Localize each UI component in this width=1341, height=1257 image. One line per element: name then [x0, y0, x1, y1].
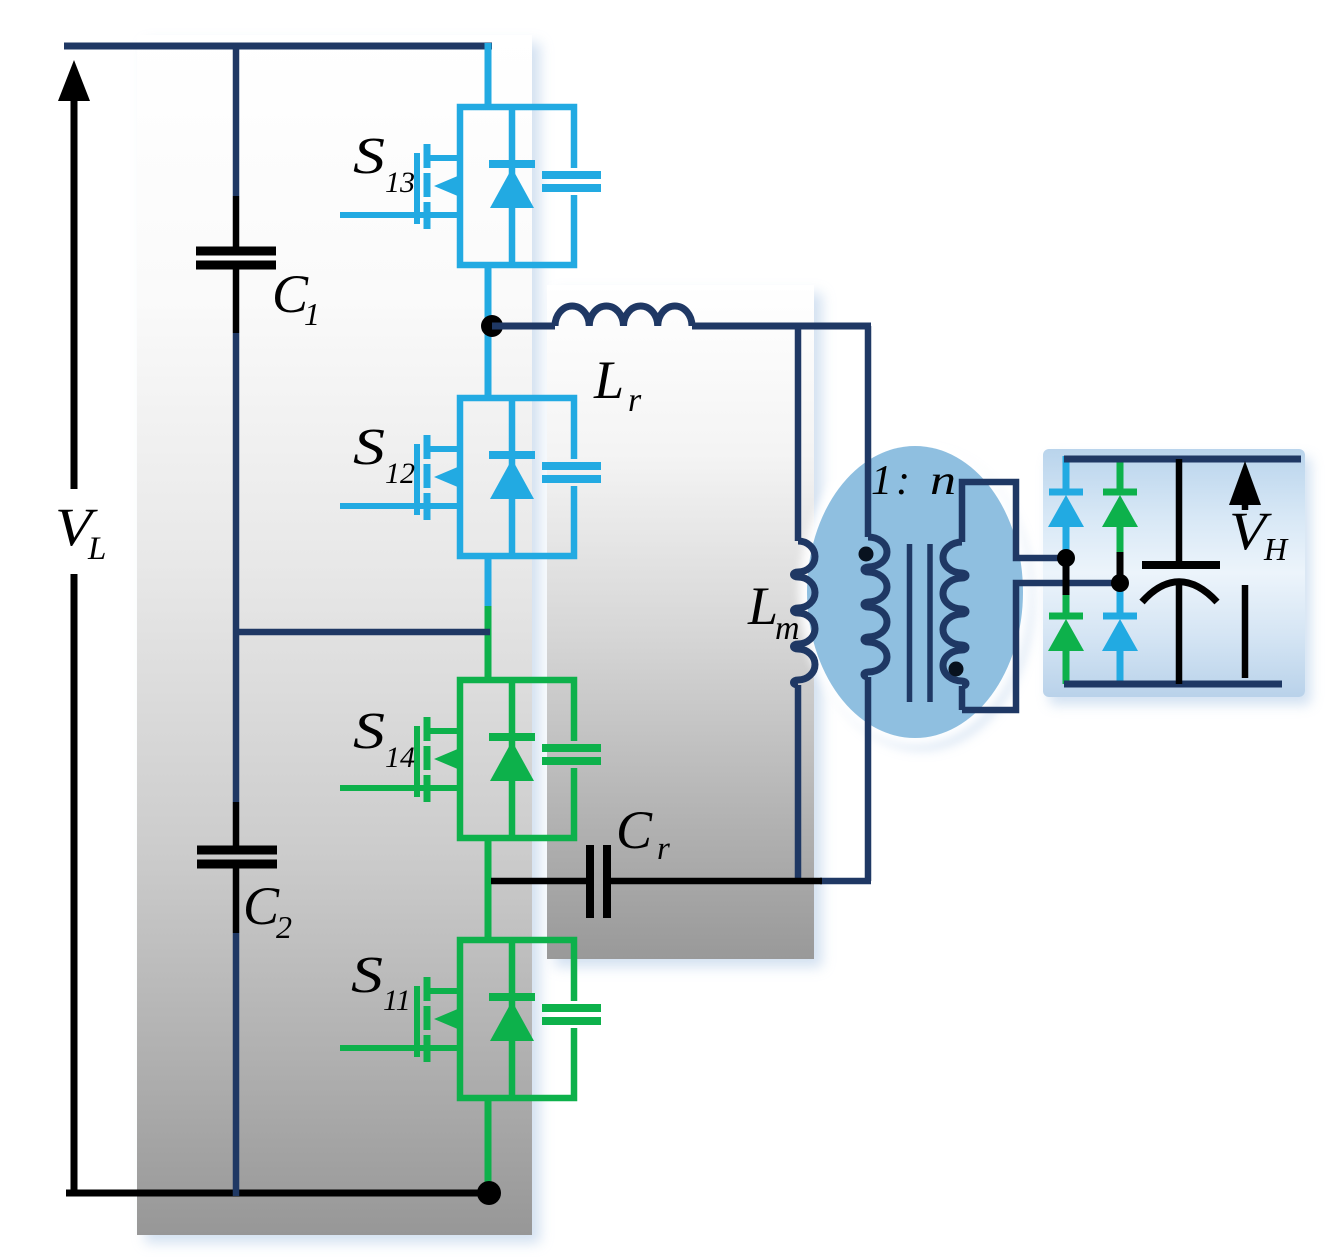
svg-text:11: 11 [383, 984, 411, 1017]
capacitor Cr [590, 845, 607, 918]
wire: resonant link bottom (navy) [820, 878, 871, 885]
wire: midpoint to Lr [492, 323, 555, 330]
wire: primary lower lead [865, 677, 872, 881]
svg-text:S: S [353, 128, 385, 185]
diode D4 (cyan, bottom of leg 2) [1102, 583, 1138, 684]
node: bottom junction [477, 1181, 501, 1205]
wire: leg1 mid black segment [1063, 552, 1070, 597]
node: leg1 midpoint [1057, 549, 1075, 567]
svg-text:L: L [593, 350, 624, 410]
wire: drain lead into S13 [485, 43, 492, 107]
capacitor C2 [197, 850, 277, 864]
switch S11 [340, 940, 601, 1098]
inductor Lr [555, 306, 692, 326]
svg-text:S: S [353, 703, 385, 760]
background panel A (left gray gradient) [137, 35, 532, 1235]
svg-text:1: 1 [304, 296, 320, 332]
wire: C1 lower lead [233, 269, 240, 333]
wire: to S14 drain (green lower half) [485, 606, 492, 680]
wire: top DC bus [64, 43, 492, 50]
node: leg2 midpoint [1111, 574, 1129, 592]
svg-text:14: 14 [385, 741, 415, 774]
wire: S13 source to S12 drain [485, 265, 492, 398]
wire: Lm lower lead [795, 685, 802, 884]
wire: rectifier top rail [1064, 456, 1301, 463]
svg-text:n: n [930, 458, 956, 504]
svg-text:2: 2 [276, 909, 292, 945]
wire: Lm upper lead [795, 326, 802, 541]
transformer highlight ellipse [807, 446, 1023, 738]
transformer core [910, 544, 931, 702]
diode D2 (green, bottom of leg 1) [1048, 595, 1084, 684]
background panel B (middle gray gradient) [547, 285, 814, 959]
svg-text:r: r [657, 831, 670, 867]
rectifier highlight blue box [1043, 449, 1305, 697]
diode D1 (cyan, top of leg 1) [1048, 456, 1084, 560]
diode D3 (green, top of leg 2) [1102, 456, 1138, 557]
wire: Cr left lead [491, 878, 587, 885]
wire: Cr right lead [611, 878, 822, 885]
svg-text::: : [896, 458, 910, 504]
switch S13 [340, 107, 601, 265]
wire: secondary top lead to rectifier upper node [962, 482, 1066, 558]
capacitor CH (output, polarized) [1142, 459, 1220, 684]
svg-text:L: L [747, 576, 778, 636]
wire: secondary bottom lead to rectifier lower node [962, 583, 1120, 710]
switch S14 [340, 680, 601, 838]
node: secondary polarity dot [949, 662, 964, 677]
wire: primary upper lead [865, 326, 872, 537]
node: primary polarity dot [859, 547, 874, 562]
svg-text:S: S [351, 947, 383, 1004]
node: S13-S12 midpoint [481, 315, 503, 337]
wire: C1 upper lead [233, 46, 240, 196]
wire: C2 lower lead [233, 868, 240, 933]
arrow VL [71, 95, 78, 1191]
arrow VH [1229, 461, 1261, 505]
wire: S12 source (cyan upper half) [485, 556, 492, 607]
svg-text:m: m [775, 610, 800, 647]
wire: S14 source to S11 drain [485, 838, 492, 940]
wire: capacitor midpoint branch to switch string [236, 629, 490, 636]
svg-text:1: 1 [871, 458, 892, 504]
svg-text:13: 13 [385, 166, 415, 199]
wire: leg2 mid black segment [1117, 552, 1124, 586]
svg-text:C: C [243, 876, 280, 936]
wire: Lr to transformer primary [692, 323, 871, 330]
transformer primary winding [864, 537, 887, 677]
wire: bottom DC bus [66, 1190, 490, 1197]
svg-text:L: L [87, 531, 106, 567]
transformer secondary winding [943, 542, 966, 686]
capacitor C1 [196, 251, 276, 265]
wire: S11 source down to bottom bus [485, 1098, 492, 1193]
svg-text:S: S [353, 419, 385, 476]
wire: rectifier bottom rail [1064, 681, 1282, 688]
svg-text:C: C [616, 800, 653, 860]
svg-text:r: r [628, 382, 642, 419]
wire: C2 upper lead [233, 632, 240, 802]
inductor Lm [794, 541, 816, 685]
svg-text:12: 12 [385, 457, 415, 490]
switch S12 [340, 398, 601, 556]
svg-text:H: H [1263, 531, 1289, 567]
